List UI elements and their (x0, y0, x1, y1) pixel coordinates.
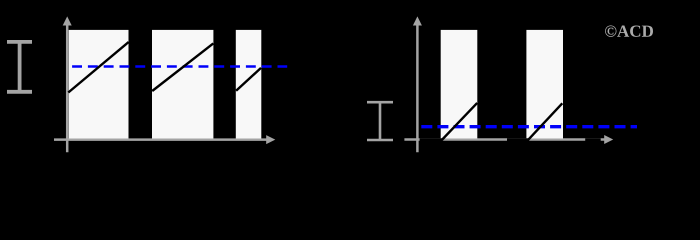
right y-axis (413, 16, 422, 152)
left pulse bar 1 (69, 30, 129, 139)
right pulse bar A (441, 30, 478, 139)
right signal zero segment before pulse B (507, 138, 529, 141)
right interval I-bar symbol (367, 102, 393, 140)
right blue dashed average line (421, 125, 637, 128)
left pulse bar 2 (152, 30, 213, 139)
right pulse bar B (526, 30, 563, 139)
left x-axis (54, 135, 275, 144)
left sawtooth ramp 2 (152, 43, 213, 91)
left y-axis (63, 16, 72, 152)
right signal zero segment before pulse A (420, 138, 443, 141)
left interval I-bar symbol (7, 42, 32, 92)
left sawtooth ramp 1 (68, 42, 128, 93)
left blue dashed average line (69, 65, 287, 67)
copyright ACD label (605, 25, 653, 36)
left sawtooth ramp 3 (236, 68, 261, 91)
left pulse bar 3 (236, 30, 261, 139)
right x-axis (404, 135, 613, 144)
right sawtooth ramp A (442, 103, 477, 140)
right sawtooth ramp B (528, 103, 562, 140)
right signal zero segment before axis arrow (585, 138, 601, 141)
